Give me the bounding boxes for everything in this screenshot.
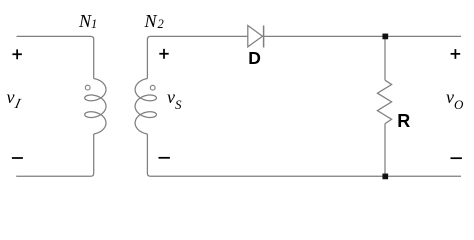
label N2 — [145, 11, 164, 32]
resistor R branch bottom wire — [384, 124, 386, 177]
resistor R branch top wire — [384, 36, 386, 80]
diode cathode bar — [263, 26, 265, 48]
minus vS — [159, 157, 170, 159]
wire secondary top to diode anode — [147, 36, 247, 78]
plus v1 — [12, 49, 22, 59]
label vS — [167, 87, 182, 108]
label N1 — [79, 11, 97, 32]
wire primary top — [17, 36, 94, 78]
minus v1 — [12, 157, 23, 159]
polarity dot primary — [85, 85, 90, 90]
junction node top — [382, 34, 388, 40]
polarity dot secondary — [150, 85, 155, 90]
resistor R zigzag — [377, 80, 391, 123]
label R — [397, 111, 410, 132]
junction node bottom — [382, 174, 388, 180]
diode D triangle — [248, 26, 263, 47]
inductor secondary N2 winding — [135, 79, 156, 135]
wire diode cathode to node — [264, 35, 461, 37]
minus vO — [451, 157, 462, 159]
label vO — [446, 87, 463, 108]
wire primary bottom — [16, 134, 94, 176]
wire secondary bottom — [147, 134, 461, 176]
inductor primary N1 winding — [85, 79, 106, 135]
plus vS — [159, 49, 168, 59]
label D — [248, 48, 261, 69]
plus vO — [451, 49, 461, 59]
label v1 — [7, 87, 20, 108]
